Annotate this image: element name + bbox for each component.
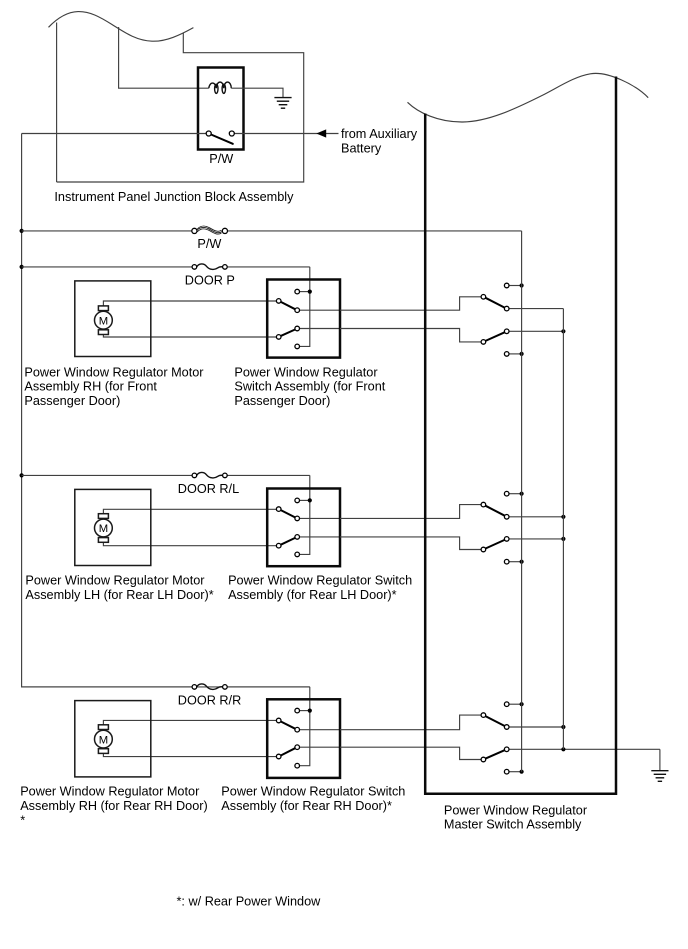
switch blades front passenger switch [281,302,295,309]
wire: motor RH front bottom link [103,335,276,338]
wire: top terminal link in rear LH switch [297,499,310,501]
wire: incoming upper from row3 door switch [340,715,483,730]
wire: incoming upper from row2 door switch [340,505,483,519]
wire: master row2 lower contact output [507,538,564,540]
svg-text:Passenger Door): Passenger Door) [24,394,120,408]
junction dot top terminal front passenger switch [308,290,312,294]
wire: vertical from wave to relay coil [119,27,209,88]
svg-text:*: * [20,813,25,827]
terminal circles front passenger switch [295,289,300,294]
svg-text:Master Switch Assembly: Master Switch Assembly [444,817,582,831]
junction dot top terminal rear LH switch [308,498,312,502]
wire: left vertical from wave into junction block outline [56,23,58,183]
svg-text:Assembly (for Rear RH Door)*: Assembly (for Rear RH Door)* [221,799,392,813]
svg-text:DOOR P: DOOR P [185,274,235,288]
wire: master row2 bottom terminal to bus A [507,561,522,563]
wire: top terminal link in rear RH switch [297,710,310,712]
svg-text:Power Window Regulator Motor: Power Window Regulator Motor [25,574,205,588]
wire: coil to ground [231,88,283,97]
wire: master row2 upper contact output [507,516,564,518]
master row2 terminal circles [504,491,509,496]
svg-text:Power Window Regulator: Power Window Regulator [444,803,588,817]
motor M3 (circle M with brushes) [95,725,113,754]
svg-text:P/W: P/W [197,237,221,251]
svg-text:P/W: P/W [209,152,233,166]
wire: master row1 bottom terminal to bus A [507,353,522,355]
svg-text:Passenger Door): Passenger Door) [234,394,330,408]
junction dots master row2 on bus A [520,492,524,496]
wire: motor RH rear top link [103,720,276,724]
svg-text:Assembly RH (for Rear RH Door): Assembly RH (for Rear RH Door) [20,799,208,813]
master row1 blades [486,298,505,308]
wire: upper output of rear RH switch [297,729,340,731]
ground (master switch) [651,771,668,782]
fuse DOOR R/L [197,472,223,477]
switch box rear RH switch [267,699,340,778]
svg-text:DOOR R/L: DOOR R/L [178,482,239,496]
wire: DOOR P circuit horizontal [22,266,193,268]
svg-text:*: w/ Rear Power Window: *: w/ Rear Power Window [177,895,322,909]
svg-text:M: M [99,734,108,746]
relay coil [209,82,232,93]
wire: junction block outline bottom/right/top edges [57,33,304,182]
svg-text:Assembly RH (for Front: Assembly RH (for Front [24,380,157,394]
fuse DOOR R/R [197,684,223,689]
motor box: PW Regulator Motor Assembly RH front [75,281,151,357]
wire: master row2 top terminal to bus A [507,493,522,495]
svg-text:Battery: Battery [341,141,382,155]
wire: motor LH rear bottom link [103,542,276,545]
wire: motor RH rear bottom link [103,753,276,756]
wire: master row3 top terminal to bus A [507,703,522,705]
wire: master row1 lower contact output [507,330,564,332]
svg-text:Power Window Regulator: Power Window Regulator [234,365,378,379]
wire: DOOR feed vertical inside rear RH switch [297,687,310,766]
wire: lower output of front passenger switch [297,328,340,330]
fusible link P/W (wavy band) [197,226,221,231]
wire: incoming upper from row1 door switch [340,297,483,310]
motor M1 (circle M with brushes) [95,306,113,335]
relay box P/W (junction block relay) [198,68,244,150]
wire: left bus vertical [22,134,310,687]
fuse DOOR P [197,264,223,269]
wire: incoming lower from row2 door switch [340,537,483,550]
wire: DOOR feed vertical inside front passenger switch [297,267,310,347]
arrow from Auxiliary Battery [316,129,326,137]
wire: master row3 upper contact output [507,726,564,728]
master row2 blades [485,506,504,516]
master row1 terminal circles [504,283,509,288]
svg-text:Assembly (for Rear LH Door)*: Assembly (for Rear LH Door)* [228,588,397,602]
switch blades rear RH switch [281,722,295,729]
wire: DOOR feed vertical inside rear LH switch [297,475,310,554]
ground (junction block relay coil) [274,98,291,109]
svg-text:DOOR R/R: DOOR R/R [178,694,241,708]
wire: master row3 lower contact output [507,748,660,750]
wire: bus B vertical (motor return inside master switch) [562,309,564,750]
wire: relay switch feed wire from Auxiliary Battery [22,133,207,135]
wire: master switch ground lead [659,749,661,770]
wire: top terminal link in front passenger switch [297,291,310,293]
svg-text:Instrument Panel Junction Bloc: Instrument Panel Junction Block Assembly [54,190,294,204]
relay contact blade [211,135,233,144]
junction dot row1 lower on bus B [561,329,565,333]
junction dots master row1 on bus A [520,283,524,287]
wire: master row1 top terminal to bus A [507,285,522,287]
wire: bus A vertical (P/W feed inside master switch) [521,231,523,772]
junction dots on left bus [20,229,24,233]
svg-text:Power Window Regulator Motor: Power Window Regulator Motor [24,365,204,379]
svg-text:Switch Assembly (for Front: Switch Assembly (for Front [234,380,385,394]
junction dots master row3 on bus A [520,702,524,706]
motor box: PW Regulator Motor Assembly RH rear [75,701,151,777]
svg-text:Power Window Regulator Switch: Power Window Regulator Switch [221,785,405,799]
svg-text:Power Window Regulator Motor: Power Window Regulator Motor [20,785,200,799]
junction dots row2 on bus B [561,515,565,519]
wire: motor RH front top link [103,301,276,306]
motor M2 (circle M with brushes) [95,514,113,543]
motor box: PW Regulator Motor Assembly LH rear [75,489,151,565]
wire: master row3 bottom terminal to bus A [507,771,522,773]
svg-text:from Auxiliary: from Auxiliary [341,127,418,141]
switch blades rear LH switch [281,510,295,517]
svg-text:M: M [99,523,108,535]
relay contact circles [206,131,211,136]
wire: upper output of rear LH switch [297,517,340,519]
switch box rear LH switch [267,489,340,567]
junction dots row3 on bus B [561,725,565,729]
wire: top-left harness break wave [49,12,194,42]
junction dot top terminal rear RH switch [308,709,312,713]
wire: DOOR R/R circuit horizontal [22,686,193,688]
master row3 blades [485,716,504,726]
wire: master row1 upper contact output [507,308,564,310]
terminal circles rear RH switch [295,708,300,713]
wire: incoming lower from row3 door switch [340,747,483,759]
wire: top-right harness break wave [408,73,649,122]
svg-text:Power Window Regulator Switch: Power Window Regulator Switch [228,574,412,588]
wire: P/W circuit horizontal [22,230,192,232]
master switch box: PW Regulator Master Switch Assembly [425,77,616,794]
wire: incoming lower from row1 door switch [340,329,483,342]
wire: lower output of rear LH switch [297,536,340,538]
wire: upper output of front passenger switch [297,309,340,311]
master row3 terminal circles [504,702,509,707]
terminal circles rear LH switch [295,498,300,503]
wire: lower output of rear RH switch [297,746,340,748]
switch box front passenger switch [267,280,340,358]
svg-text:Assembly LH (for Rear LH Door): Assembly LH (for Rear LH Door)* [25,588,213,602]
svg-text:M: M [99,315,108,327]
wire: DOOR R/L circuit horizontal [22,474,193,476]
wire: motor LH rear top link [103,509,276,513]
